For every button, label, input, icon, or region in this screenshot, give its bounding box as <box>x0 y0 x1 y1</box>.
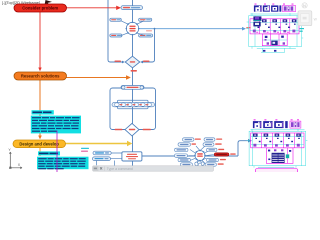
svg-text:Research solutions: Research solutions <box>21 74 60 79</box>
frame rounded rect <box>110 88 156 130</box>
diamond 1 <box>125 56 140 68</box>
row2 <box>178 143 191 146</box>
lower center section <box>262 34 287 46</box>
red line: consider->box1 <box>66 7 117 9</box>
red line: consider down to research <box>39 12 41 68</box>
red no labels diamond1 <box>115 61 122 62</box>
spokes <box>189 146 214 164</box>
svg-text:N: N <box>303 3 306 8</box>
svg-text:Type a command: Type a command <box>107 167 133 171</box>
left small boxes A/B <box>97 153 123 166</box>
hub1 connectors <box>121 21 144 36</box>
mid left <box>175 154 188 157</box>
svg-text:Design and develop: Design and develop <box>19 142 59 147</box>
viewcube <box>298 3 318 32</box>
cyan block 1 header <box>32 110 54 114</box>
stadium on frame top <box>121 86 144 90</box>
wire: right loop <box>141 29 155 62</box>
research solutions box <box>14 72 67 80</box>
title glyphs <box>253 121 288 128</box>
UCS icon <box>9 152 21 169</box>
command bar <box>93 166 214 171</box>
top band <box>251 133 304 148</box>
bottom magenta stadium <box>255 168 297 173</box>
cyan block 1 paragraph <box>31 116 81 134</box>
cyan block 2 paragraph <box>37 157 89 170</box>
orange line: research down <box>39 80 41 136</box>
satellites row1 <box>183 138 195 141</box>
design and develop box <box>13 140 66 148</box>
lower center <box>266 148 293 164</box>
orange line: research right <box>66 77 126 79</box>
cyan block 2 header <box>38 151 60 155</box>
hub2 group <box>175 138 236 167</box>
top band <box>250 19 299 34</box>
label red near junction <box>146 30 152 31</box>
hub1 circle <box>126 22 138 34</box>
svg-text:Consider problem: Consider problem <box>22 6 58 11</box>
stair detail <box>272 153 285 163</box>
red bar <box>214 153 229 156</box>
top box1 <box>121 6 143 10</box>
mouse cursor <box>45 0 52 6</box>
consider problem box <box>14 4 67 12</box>
wire: left loop vertical <box>108 0 124 62</box>
floor plan 2 <box>247 119 308 173</box>
wire: leader to plan1 <box>139 28 242 30</box>
red labels on frame bottom <box>115 129 123 131</box>
yellow line: design right <box>65 143 127 145</box>
row6 <box>180 163 192 166</box>
diamond 2 <box>125 123 139 135</box>
orange stub below design box <box>39 148 41 157</box>
hub2 circle <box>195 151 205 161</box>
floor plan 1 <box>246 4 303 53</box>
title glyphs <box>254 5 281 11</box>
outer cyan dims <box>247 129 308 168</box>
magenta vertical line <box>56 131 58 173</box>
row3 left wide <box>175 148 189 151</box>
subprocess chain <box>112 102 155 106</box>
outer cyan dims <box>246 13 303 52</box>
hub1 satellites <box>110 18 153 37</box>
process box <box>142 141 248 156</box>
row5 <box>207 158 219 161</box>
cloud <box>195 161 204 167</box>
wire: spine vertical <box>132 0 134 166</box>
left room dark fixtures <box>253 16 261 21</box>
